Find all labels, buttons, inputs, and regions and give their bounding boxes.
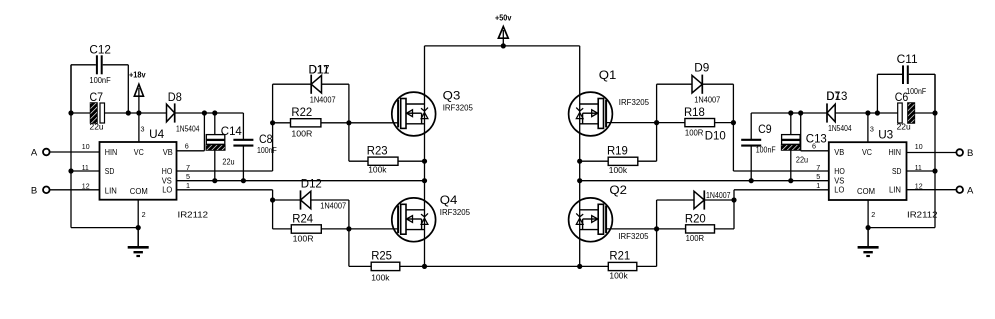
wire xyxy=(868,110,898,115)
capacitor C11 xyxy=(877,52,935,113)
svg-text:3: 3 xyxy=(870,124,874,133)
wire bottom rail xyxy=(422,264,582,269)
svg-text:COM: COM xyxy=(130,187,148,196)
capacitor C7 xyxy=(71,90,128,123)
pin label VB U4 xyxy=(163,148,173,157)
svg-text:22u: 22u xyxy=(796,155,808,165)
wire Q2 gate xyxy=(606,228,657,230)
svg-text:11: 11 xyxy=(915,163,922,172)
wire SD xyxy=(71,163,100,172)
diode D9 xyxy=(657,61,734,94)
wire B-LIN xyxy=(50,182,100,191)
junction low diode right xyxy=(731,197,736,202)
resistor R20 xyxy=(657,211,734,233)
svg-text:SD: SD xyxy=(105,167,115,176)
svg-text:R18: R18 xyxy=(684,105,705,119)
wire A-HIN xyxy=(50,142,100,152)
svg-text:5: 5 xyxy=(186,172,190,181)
svg-text:7: 7 xyxy=(816,163,820,172)
pin label VC U3 xyxy=(862,148,872,157)
wire VS U3 xyxy=(580,172,829,181)
pin 6 VB wire U4 xyxy=(177,110,207,150)
label U3 xyxy=(878,127,893,141)
terminal A left xyxy=(31,148,50,159)
value label C7 22u xyxy=(90,122,104,132)
capacitor C9 xyxy=(741,113,771,181)
node +50v xyxy=(495,14,512,49)
svg-text:100R: 100R xyxy=(293,233,314,243)
label Q2 xyxy=(609,183,627,197)
pin label SD U4 xyxy=(105,167,115,176)
pin 2 COM wire U3 xyxy=(866,200,876,230)
svg-text:HIN: HIN xyxy=(105,148,118,157)
pin label LIN U3 xyxy=(889,186,901,195)
value label Q1 IRF3205 xyxy=(619,97,649,107)
svg-text:LO: LO xyxy=(162,186,172,195)
pin label HO U3 xyxy=(834,167,845,176)
transistor Q3 xyxy=(392,92,436,136)
label D12 xyxy=(301,176,322,190)
svg-text:C12: C12 xyxy=(89,43,111,57)
svg-text:22u: 22u xyxy=(90,122,104,132)
junction VS/C8 xyxy=(241,178,246,183)
value label R19 100k xyxy=(609,165,628,175)
svg-text:R19: R19 xyxy=(607,144,628,158)
value label R18 100R xyxy=(685,128,704,138)
resistor R24 xyxy=(273,211,349,233)
pin label HIN U3 xyxy=(889,148,902,157)
svg-text:Q3: Q3 xyxy=(443,88,461,102)
wire drain-source right xyxy=(579,46,581,267)
svg-text:VB: VB xyxy=(834,148,844,157)
svg-text:+18v: +18v xyxy=(129,70,146,79)
svg-text:U3: U3 xyxy=(878,127,893,141)
svg-text:100nF: 100nF xyxy=(257,145,277,155)
svg-text:D9: D9 xyxy=(694,61,709,75)
junction SD/ground-vertical xyxy=(68,168,73,173)
svg-text:D10: D10 xyxy=(705,129,726,143)
value label D12 1N4007 xyxy=(320,201,346,211)
junction rail/C13 xyxy=(788,110,793,115)
junction rail/C12 xyxy=(126,110,131,115)
pin label HIN U4 xyxy=(105,148,118,157)
svg-text:C9: C9 xyxy=(758,122,772,136)
pin label LO U4 xyxy=(162,186,172,195)
wire Q1 gate xyxy=(606,120,659,125)
svg-text:B: B xyxy=(31,185,37,196)
wire VS U4 xyxy=(177,172,425,181)
pin label COM U4 xyxy=(130,187,148,196)
ground right xyxy=(858,228,879,256)
value label R21 100k xyxy=(609,270,628,280)
svg-text:C8: C8 xyxy=(259,132,273,146)
wire LIN-A xyxy=(907,182,957,191)
wire gate node Q3 xyxy=(346,84,351,161)
svg-text:C13: C13 xyxy=(806,132,827,146)
resistor R25 xyxy=(349,249,425,271)
svg-text:100R: 100R xyxy=(686,233,705,243)
svg-text:22u: 22u xyxy=(897,122,911,132)
svg-text:1: 1 xyxy=(186,181,190,190)
svg-text:IR2112: IR2112 xyxy=(907,210,938,219)
label Q3 xyxy=(443,88,461,102)
wire HO U3 xyxy=(733,163,828,172)
svg-text:Q2: Q2 xyxy=(609,183,627,197)
svg-text:D12: D12 xyxy=(301,176,322,190)
svg-text:IR2112: IR2112 xyxy=(178,210,209,219)
junction rail/ground-vertical right xyxy=(932,110,937,115)
label D10 xyxy=(705,129,726,143)
pin 2 COM wire U4 xyxy=(136,200,146,231)
svg-text:10: 10 xyxy=(82,142,90,151)
capacitor C6 xyxy=(895,90,935,123)
svg-text:3: 3 xyxy=(141,124,145,133)
svg-text:7: 7 xyxy=(186,163,190,172)
wire gate node Q1 xyxy=(656,84,658,161)
value label C12 100nF xyxy=(89,75,110,85)
value label C13 22u xyxy=(796,155,808,165)
pin label VB U3 xyxy=(834,148,844,157)
transistor Q4 xyxy=(392,198,436,242)
wire xyxy=(732,84,734,171)
junction SD/ground-vertical right xyxy=(932,168,937,173)
svg-text:R24: R24 xyxy=(292,211,313,225)
wire Q4 gate xyxy=(349,228,398,230)
svg-text:12: 12 xyxy=(82,182,90,191)
diode low-side right xyxy=(657,190,734,209)
wire gate node Q2 xyxy=(654,200,659,266)
resistor R18 xyxy=(657,105,736,127)
svg-text:1N4007: 1N4007 xyxy=(694,95,720,105)
pin label VS U4 xyxy=(162,177,172,186)
value label C14 22u xyxy=(222,157,234,167)
value label D13 1N5404 xyxy=(828,123,852,133)
svg-text:IRF3205: IRF3205 xyxy=(440,207,470,217)
junction R22 left xyxy=(270,120,275,125)
label IR2112 left xyxy=(178,210,209,219)
value label Q2 IRF3205 xyxy=(618,231,648,241)
terminal B left xyxy=(31,185,50,196)
svg-text:IRF3205: IRF3205 xyxy=(443,102,473,112)
pin 3 VC wire U4 xyxy=(139,113,145,142)
label IR2112 right xyxy=(907,210,938,219)
svg-text:IRF3205: IRF3205 xyxy=(618,231,648,241)
wire COM bottom left xyxy=(71,227,138,229)
svg-text:100k: 100k xyxy=(609,165,628,175)
node +18v xyxy=(129,70,146,115)
capacitor C13 xyxy=(782,113,827,181)
svg-text:HO: HO xyxy=(162,167,173,176)
svg-text:1N4007: 1N4007 xyxy=(320,201,346,211)
wire SD U3 xyxy=(907,163,936,172)
resistor R22 xyxy=(273,105,349,127)
value label R23 100k xyxy=(368,165,387,175)
wire top rail xyxy=(425,45,580,47)
transistor Q1 xyxy=(569,92,613,136)
wire xyxy=(128,112,166,114)
svg-text:SD: SD xyxy=(892,167,902,176)
resistor R19 xyxy=(577,144,656,166)
svg-text:LIN: LIN xyxy=(105,186,117,195)
label Q1 xyxy=(599,68,617,82)
value label D8 1N5404 xyxy=(176,123,200,133)
svg-text:HIN: HIN xyxy=(889,148,902,157)
svg-text:D8: D8 xyxy=(168,90,182,104)
junction VS/half-bridge left xyxy=(422,178,427,183)
svg-text:C14: C14 xyxy=(221,124,242,138)
svg-text:Q4: Q4 xyxy=(440,193,458,207)
pin label VS U3 xyxy=(834,177,844,186)
svg-text:100nF: 100nF xyxy=(89,75,110,85)
svg-text:1: 1 xyxy=(816,181,820,190)
svg-text:D7: D7 xyxy=(826,89,840,103)
wire gate node Q4 xyxy=(346,200,351,266)
value label C8 100nF xyxy=(257,145,277,155)
wire LO U4 xyxy=(177,181,273,190)
svg-text:1N5404: 1N5404 xyxy=(828,123,852,133)
resistor R21 xyxy=(580,249,657,271)
junction VS/C13 xyxy=(788,178,793,183)
svg-text:10: 10 xyxy=(915,142,923,151)
svg-text:5: 5 xyxy=(816,172,820,181)
junction VS/C9 xyxy=(749,178,754,183)
pin label SD U3 xyxy=(892,167,902,176)
resistor R23 xyxy=(349,144,427,166)
svg-text:6: 6 xyxy=(185,142,189,151)
pin label VC U4 xyxy=(134,148,144,157)
svg-text:100nF: 100nF xyxy=(906,86,926,96)
svg-text:100R: 100R xyxy=(685,128,704,138)
svg-text:C11: C11 xyxy=(897,52,918,66)
junction rail/ground-vertical xyxy=(68,110,73,115)
value label Q3 IRF3205 xyxy=(443,102,473,112)
value label R25 100k xyxy=(371,273,390,283)
svg-text:VS: VS xyxy=(162,177,172,186)
value label D17 1N4007 xyxy=(310,95,336,105)
junction D12 left xyxy=(270,197,275,202)
svg-text:R23: R23 xyxy=(367,144,388,158)
svg-text:VC: VC xyxy=(862,148,872,157)
wire xyxy=(733,190,735,229)
wire HO U4 xyxy=(177,163,273,172)
wire Q3 gate xyxy=(349,122,398,124)
op-amp U4 IR2112 body xyxy=(100,127,177,200)
svg-text:100k: 100k xyxy=(371,273,390,283)
value label C6 22u xyxy=(897,122,911,132)
junction VS/C14 xyxy=(212,178,217,183)
value label R24 100R xyxy=(293,233,314,243)
ground xyxy=(128,228,149,256)
svg-text:Q1: Q1 xyxy=(599,68,617,82)
svg-text:C7: C7 xyxy=(90,90,104,104)
svg-text:R22: R22 xyxy=(291,105,312,119)
svg-text:LO: LO xyxy=(834,186,844,195)
svg-text:100R: 100R xyxy=(291,129,312,139)
capacitor C12 xyxy=(71,43,128,113)
value label C11 100nF xyxy=(906,86,926,96)
svg-text:A: A xyxy=(31,148,38,159)
svg-text:2: 2 xyxy=(142,210,146,219)
capacitor C14 xyxy=(206,110,242,180)
junction VS/half-bridge right xyxy=(577,178,582,183)
svg-text:LIN: LIN xyxy=(889,186,901,195)
svg-text:100k: 100k xyxy=(368,165,387,175)
svg-text:COM: COM xyxy=(857,187,875,196)
svg-text:B: B xyxy=(967,148,973,159)
wire drain-source left xyxy=(424,46,426,267)
svg-text:2: 2 xyxy=(871,210,875,219)
diode D8 xyxy=(167,90,182,123)
diode D13 xyxy=(826,89,868,123)
pin 3 VC wire U3 xyxy=(865,110,874,142)
value label R20 100R xyxy=(686,233,705,243)
pin 6 VB wire U3 xyxy=(801,113,829,151)
wire LO U3 xyxy=(734,181,829,190)
wire xyxy=(751,112,827,114)
svg-text:HO: HO xyxy=(834,167,845,176)
label Q4 xyxy=(440,193,458,207)
junction rail/VB U3 xyxy=(798,110,803,115)
svg-text:6: 6 xyxy=(812,142,816,151)
value label Q4 IRF3205 xyxy=(440,207,470,217)
diode D12 xyxy=(273,190,349,209)
svg-text:1N4007: 1N4007 xyxy=(310,95,336,105)
svg-text:R25: R25 xyxy=(371,249,392,263)
svg-text:22u: 22u xyxy=(222,157,234,167)
svg-text:U4: U4 xyxy=(149,127,164,141)
diode D17 xyxy=(273,62,349,93)
svg-text:12: 12 xyxy=(915,182,923,191)
terminal A right xyxy=(956,185,974,196)
transistor Q2 xyxy=(569,198,613,242)
wire COM bottom right xyxy=(868,227,935,229)
wire xyxy=(272,190,274,229)
svg-text:VS: VS xyxy=(834,177,844,186)
wire ground vertical right xyxy=(934,74,936,227)
svg-text:1N5404: 1N5404 xyxy=(176,123,200,133)
svg-text:VB: VB xyxy=(163,148,173,157)
op-amp U3 IR2112 body xyxy=(829,142,907,200)
wire ground vertical left xyxy=(70,65,72,228)
svg-text:100nF: 100nF xyxy=(756,145,776,155)
capacitor C8 xyxy=(233,113,272,181)
svg-text:+50v: +50v xyxy=(495,14,512,23)
terminal B right xyxy=(956,148,973,159)
value label C9 100nF xyxy=(756,145,776,155)
value label R22 100R xyxy=(291,129,312,139)
svg-text:R21: R21 xyxy=(609,249,630,263)
svg-text:100k: 100k xyxy=(609,270,628,280)
svg-text:1N4007: 1N4007 xyxy=(706,190,731,200)
svg-text:D11: D11 xyxy=(309,62,330,76)
value label low diode 1N4007 xyxy=(706,190,731,200)
value label D9 1N4007 xyxy=(694,95,720,105)
pin label LIN U4 xyxy=(105,186,117,195)
svg-text:R20: R20 xyxy=(685,211,706,225)
pin label COM U3 xyxy=(857,187,875,196)
wire xyxy=(272,84,274,171)
svg-text:IRF3205: IRF3205 xyxy=(619,97,649,107)
wire HIN-B xyxy=(907,142,957,153)
svg-text:VC: VC xyxy=(134,148,144,157)
pin label LO U3 xyxy=(834,186,844,195)
pin label HO U4 xyxy=(162,167,173,176)
wire xyxy=(175,112,244,114)
svg-text:11: 11 xyxy=(82,163,89,172)
svg-text:A: A xyxy=(967,185,974,196)
